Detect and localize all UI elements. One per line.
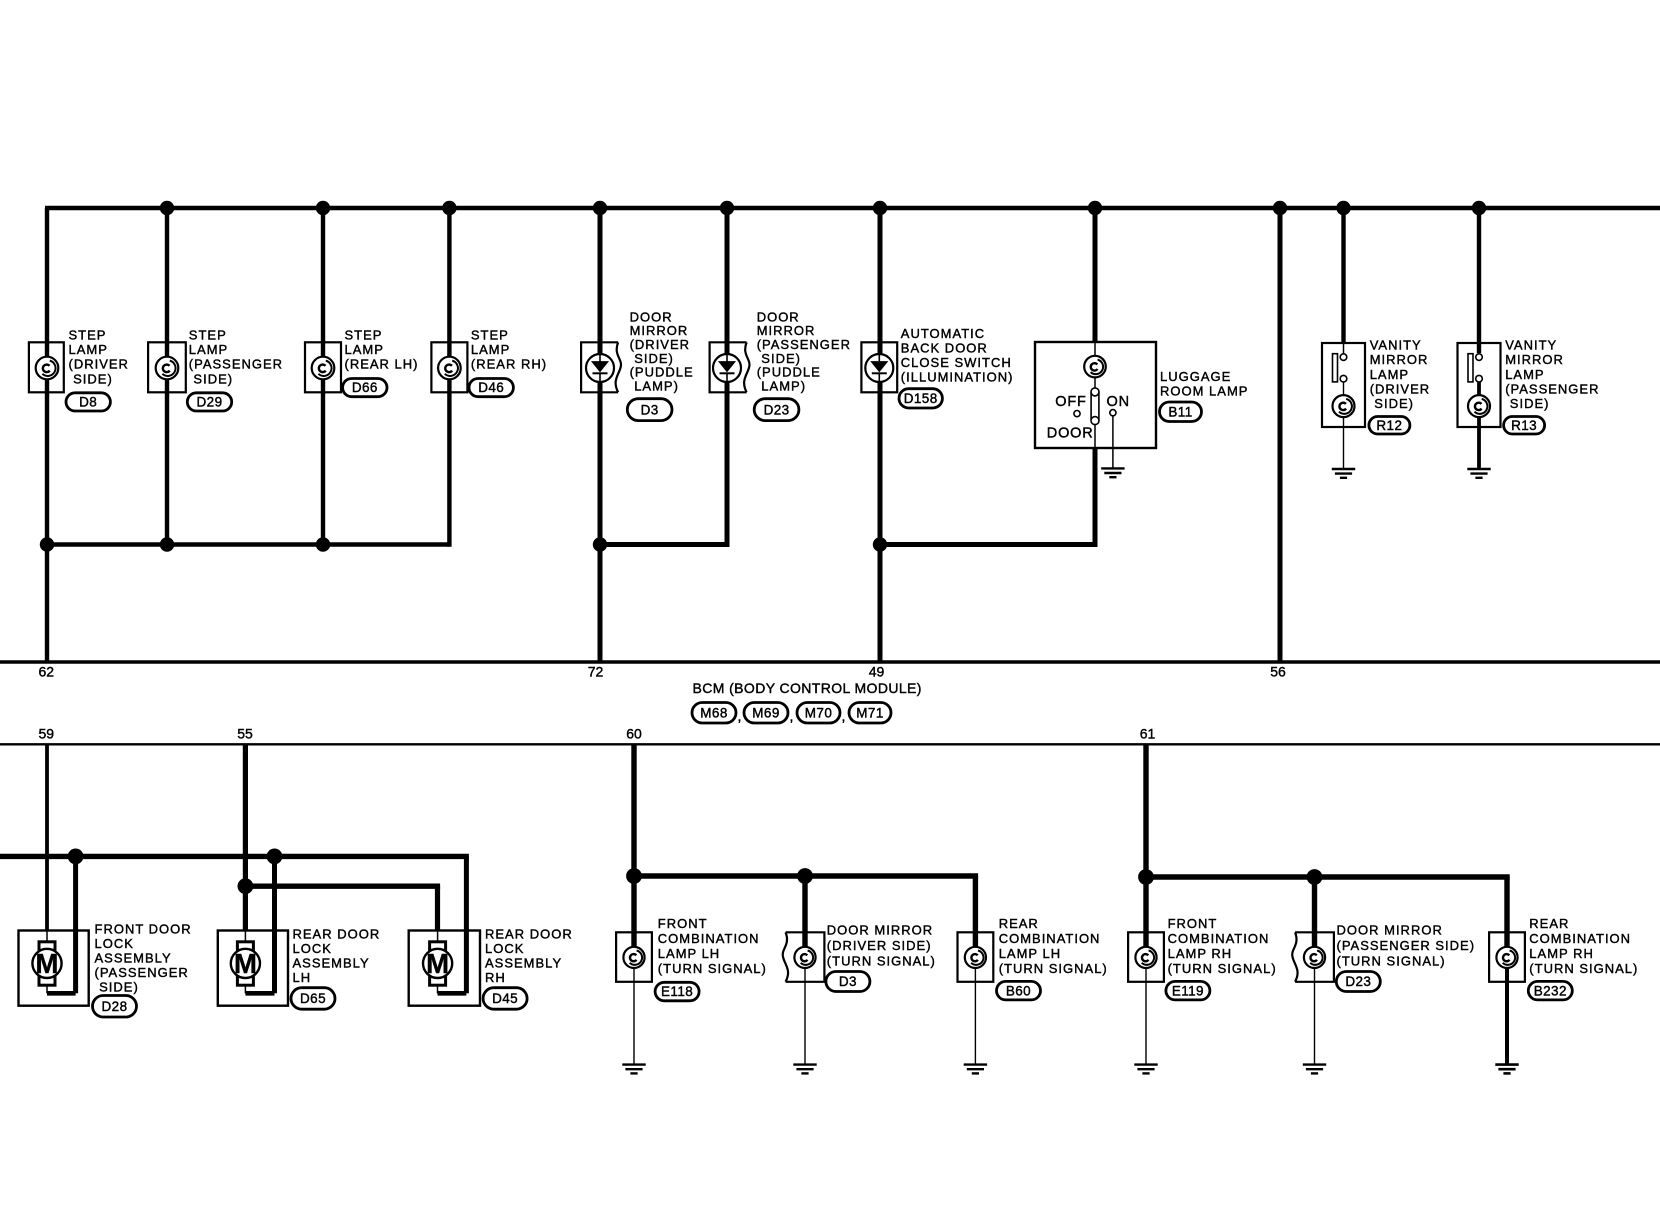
junction top bus at B11 [1088,201,1102,215]
svg-text:72: 72 [588,664,604,680]
label D3 lamp [827,923,936,969]
label D66 [345,328,419,372]
connector oval D23 [754,399,799,421]
svg-text:(PUDDLE: (PUDDLE [630,365,694,380]
svg-text:D158: D158 [904,391,938,406]
label vanity mirror driver [1370,338,1430,411]
wire lower tie bus (step lamps) [45,542,450,546]
svg-text:DOOR MIRROR: DOOR MIRROR [1337,923,1443,938]
svg-text:ASSEMBLY: ASSEMBLY [95,951,172,966]
svg-text:CLOSE SWITCH: CLOSE SWITCH [901,355,1012,370]
connector oval D66 [343,379,387,397]
wire branch to D65 lock [272,856,277,993]
door lock motor D65 [218,931,288,1006]
connector oval D158 [899,389,942,408]
svg-text:LH: LH [293,970,312,985]
svg-text:49: 49 [869,664,885,680]
svg-text:M: M [426,948,449,979]
junction tie bus at step lamp driver [40,537,54,551]
svg-text:E119: E119 [1172,983,1204,998]
wire drop to door mirror D3 turn [802,876,807,957]
wire luggage room lamp drop [1093,208,1098,342]
svg-text:MIRROR: MIRROR [630,323,689,338]
svg-text:BACK DOOR: BACK DOOR [901,341,988,356]
label D29 [189,328,283,387]
ground (vanity passenger) [1467,469,1490,478]
svg-text:SIDE): SIDE) [630,351,674,366]
svg-text:,: , [738,708,742,724]
svg-text:DOOR: DOOR [1047,425,1094,441]
svg-text:OFF: OFF [1055,394,1086,410]
svg-text:LAMP: LAMP [189,342,228,357]
svg-text:LAMP: LAMP [1370,367,1409,382]
wire vanity mirror passenger drop [1477,208,1481,342]
svg-text:(REAR LH): (REAR LH) [345,357,419,372]
turn signal lamp D23 [1292,932,1334,1064]
svg-text:DOOR MIRROR: DOOR MIRROR [827,923,933,938]
ground (B232) [1495,1065,1518,1074]
svg-text:LAMP: LAMP [345,342,384,357]
pin 61 [1140,726,1156,742]
label D45 [485,927,573,986]
svg-text:D29: D29 [197,395,223,410]
turn signal lamp E119 [1128,932,1164,1064]
step lamp bulb D29 [148,342,186,392]
svg-text:R13: R13 [1511,418,1537,433]
wire D65 loop [245,986,274,994]
svg-text:COMBINATION: COMBINATION [658,931,760,946]
ground (B60) [964,1065,987,1074]
svg-text:LUGGAGE: LUGGAGE [1160,369,1231,384]
door mirror puddle lamp D23 (LED) [710,342,750,392]
svg-text:M: M [234,948,257,979]
pin 59 [39,726,55,742]
wire tie door mirror puddle lamps [600,542,730,547]
connector oval D46 [469,379,513,397]
svg-text:(TURN SIGNAL): (TURN SIGNAL) [827,953,936,968]
svg-text:VANITY: VANITY [1370,338,1422,353]
wire BCM pin 56 riser [1278,208,1283,662]
turn signal lamp B232 [1489,932,1525,1064]
junction tie bus at step lamp rear LH [316,537,330,551]
junction feed bus at D28 [68,849,84,865]
svg-text:M68: M68 [700,705,727,720]
svg-text:(TURN SIGNAL): (TURN SIGNAL) [1529,961,1638,976]
svg-text:STEP: STEP [471,328,509,343]
svg-text:DOOR: DOOR [757,309,800,324]
svg-text:D3: D3 [641,402,659,417]
svg-text:LAMP LH: LAMP LH [999,946,1061,961]
svg-text:(PASSENGER: (PASSENGER [1505,381,1599,396]
svg-text:ON: ON [1107,394,1130,410]
svg-text:ROOM LAMP: ROOM LAMP [1160,383,1248,398]
svg-text:D8: D8 [79,395,97,410]
svg-text:61: 61 [1140,726,1156,742]
svg-text:D66: D66 [352,380,378,395]
connector oval D3 [627,399,672,421]
wire back door switch drop / BCM pin 49 riser [878,208,883,662]
svg-text:ASSEMBLY: ASSEMBLY [485,956,562,971]
wire ON contact to ground [1112,416,1114,469]
BCM module bottom edge [0,743,1660,745]
vanity mirror lamp R12 [1322,343,1365,469]
svg-text:LAMP RH: LAMP RH [1168,946,1233,961]
wire drop to rear combination B232 [1504,877,1509,957]
svg-text:SIDE): SIDE) [69,371,113,386]
svg-text:STEP: STEP [189,328,227,343]
door lock motor D28 [19,931,89,1006]
junction top bus at R13 [1472,201,1486,215]
wire step lamp driver side drop / BCM pin 62 riser [45,208,49,662]
junction tie bus at step lamp passenger [160,537,174,551]
junction top bus at D66 [316,201,330,215]
svg-text:MIRROR: MIRROR [1505,352,1564,367]
svg-text:D3: D3 [839,974,857,989]
label B232 lamp [1529,916,1638,976]
wire step lamp passenger side drop [165,208,169,545]
svg-text:LAMP: LAMP [1505,367,1544,382]
pin 49 [869,664,885,680]
wire door-lock feed bus (from left edge) [0,854,469,859]
label OFF [1055,394,1086,410]
label D8 [69,328,129,387]
svg-text:LAMP: LAMP [69,342,108,357]
svg-text:62: 62 [39,664,55,680]
svg-text:(PASSENGER: (PASSENGER [189,357,283,372]
svg-text:LAMP RH: LAMP RH [1529,946,1594,961]
connector oval B60 [997,981,1041,1000]
svg-text:DOOR: DOOR [630,309,673,324]
wire BCM pin 55 drop [243,744,248,930]
svg-text:COMBINATION: COMBINATION [1529,931,1631,946]
svg-text:(DRIVER: (DRIVER [630,337,690,352]
connector oval B232 [1528,981,1572,1000]
svg-text:LAMP): LAMP) [630,378,679,393]
svg-text:55: 55 [237,726,253,742]
vanity mirror lamp R13 [1458,343,1501,469]
svg-text:(PASSENGER: (PASSENGER [757,337,851,352]
wire D28 loop [47,986,76,994]
svg-text:M71: M71 [856,705,883,720]
svg-text:LAMP): LAMP) [757,378,806,393]
junction top bus at D23 [720,201,734,215]
svg-text:SIDE): SIDE) [757,351,801,366]
ground (E119) [1134,1065,1157,1074]
ground (luggage lamp switch) [1101,468,1124,477]
svg-text:B11: B11 [1168,404,1192,419]
wire drop to door mirror D23 turn [1312,877,1317,957]
connector oval E119 [1166,981,1210,1000]
svg-text:SIDE): SIDE) [95,980,139,995]
svg-text:(TURN SIGNAL): (TURN SIGNAL) [1337,953,1446,968]
svg-text:STEP: STEP [69,328,107,343]
connector oval R13 [1504,417,1545,435]
wire BCM pin 59 to front door lock motor [45,744,49,930]
pin 60 [626,726,642,742]
connector oval B11 [1160,402,1202,422]
svg-text:REAR: REAR [999,916,1039,931]
label D46 [471,328,547,372]
connector oval D23 [1336,972,1380,992]
wire branch to D45 lock [464,856,469,993]
step lamp bulb D46 [431,342,467,392]
svg-text:LAMP LH: LAMP LH [658,946,720,961]
svg-text:(DRIVER SIDE): (DRIVER SIDE) [827,938,932,953]
svg-text:59: 59 [39,726,55,742]
connector oval D28 [93,996,137,1018]
wire door mirror driver drop / BCM pin 72 riser [598,208,603,662]
turn signal lamp E118 [616,932,652,1064]
ground (D23) [1303,1065,1326,1074]
pin 55 [237,726,253,742]
svg-text:COMBINATION: COMBINATION [1168,931,1270,946]
svg-text:FRONT: FRONT [1168,916,1218,931]
label door mirror passenger puddle [757,309,851,393]
svg-text:R12: R12 [1376,418,1402,433]
svg-text:LAMP: LAMP [471,342,510,357]
svg-text:(DRIVER: (DRIVER [1370,381,1430,396]
svg-text:56: 56 [1270,664,1286,680]
connector oval D3 [826,972,870,992]
svg-text:(TURN SIGNAL): (TURN SIGNAL) [658,961,767,976]
svg-text:60: 60 [626,726,642,742]
svg-text:(PASSENGER: (PASSENGER [95,965,189,980]
wire branch to D28 lock [73,856,78,993]
svg-text:LOCK: LOCK [95,936,134,951]
wire drop to D45 motor [435,886,440,930]
svg-text:REAR: REAR [1529,916,1569,931]
svg-text:D45: D45 [492,991,518,1006]
label D23 lamp [1337,923,1476,969]
svg-text:REAR DOOR: REAR DOOR [293,927,381,942]
svg-text:(TURN SIGNAL): (TURN SIGNAL) [999,961,1108,976]
junction tie bus at door mirror driver [593,537,607,551]
svg-text:,: , [842,708,846,724]
svg-text:B232: B232 [1534,983,1567,998]
svg-text:M70: M70 [805,705,832,720]
svg-text:COMBINATION: COMBINATION [999,931,1101,946]
wire luggage room lamp to tie bus [1093,448,1098,545]
svg-text:FRONT DOOR: FRONT DOOR [95,922,192,937]
label door mirror driver puddle [630,309,694,393]
svg-text:REAR DOOR: REAR DOOR [485,927,573,942]
ground (E118) [622,1065,645,1074]
svg-text:(TURN SIGNAL): (TURN SIGNAL) [1168,961,1277,976]
junction pin60 at LH turn bus [626,868,642,884]
step lamp bulb D66 [305,342,341,392]
svg-text:(DRIVER: (DRIVER [69,357,129,372]
svg-text:D65: D65 [300,991,326,1006]
junction top bus at R12 [1336,201,1350,215]
ground (vanity driver) [1332,469,1355,478]
svg-text:D28: D28 [102,999,128,1014]
label DOOR [1047,425,1094,441]
svg-text:SIDE): SIDE) [1505,396,1549,411]
svg-text:VANITY: VANITY [1505,338,1557,353]
junction pin61 at RH turn bus [1138,869,1154,885]
svg-text:(PASSENGER SIDE): (PASSENGER SIDE) [1337,938,1476,953]
svg-text:LOCK: LOCK [293,941,332,956]
pin 72 [588,664,604,680]
wire step lamp rear LH drop [321,208,325,545]
door lock motor D45 [409,931,480,1006]
junction RH turn bus at D23 [1307,869,1323,885]
pin 62 [39,664,55,680]
junction tie bus at back door switch [873,537,887,551]
svg-text:D46: D46 [478,380,504,395]
label E119 lamp [1168,916,1277,976]
svg-text:STEP: STEP [345,328,383,343]
wire D45 loop [438,986,467,994]
svg-text:AUTOMATIC: AUTOMATIC [901,326,985,341]
turn signal lamp D3 [783,932,825,1064]
wire BCM pin 61 drop [1143,744,1148,957]
svg-text:SIDE): SIDE) [189,371,233,386]
label luggage room lamp [1160,369,1248,398]
wire drop to rear combination B60 [973,876,978,957]
svg-text:(REAR RH): (REAR RH) [471,357,547,372]
svg-text:(PUDDLE: (PUDDLE [757,365,821,380]
svg-text:RH: RH [485,970,506,985]
automatic back door close switch illumination D158 (LED) [861,342,897,392]
svg-text:M69: M69 [752,705,779,720]
connector oval D65 [291,988,335,1010]
svg-text:,: , [790,708,794,724]
junction top bus at D29 [160,201,174,215]
junction top bus at D158 [873,201,887,215]
wire main power bus (top) [45,206,1660,210]
wire rear lock bus [245,884,440,889]
svg-text:D23: D23 [764,402,790,417]
BCM module top edge [0,660,1660,663]
connector oval D8 [66,393,110,411]
junction top bus at D3 [593,201,607,215]
svg-text:E118: E118 [661,984,693,999]
label back door close switch [901,326,1014,385]
svg-text:ASSEMBLY: ASSEMBLY [293,956,370,971]
svg-text:B60: B60 [1006,983,1031,998]
junction LH turn bus at D3 [797,868,813,884]
pin 56 [1270,664,1286,680]
svg-text:MIRROR: MIRROR [1370,352,1429,367]
wire RH turn signal bus [1146,874,1510,879]
label D28 [95,922,192,995]
wire tie back door switch - luggage lamp [880,542,1098,547]
luggage room lamp B11 (bulb + switch) [1035,342,1156,448]
svg-text:MIRROR: MIRROR [757,323,816,338]
svg-text:FRONT: FRONT [658,916,708,931]
door mirror puddle lamp D3 (LED) [581,342,621,392]
label ON [1107,394,1130,410]
junction top bus at pin56 [1273,201,1287,215]
wire step lamp rear RH drop [447,208,451,547]
ground (D3) [793,1065,816,1074]
step lamp bulb D8 [29,342,64,392]
connector oval E118 [655,982,699,1001]
label BCM (BODY CONTROL MODULE) [693,680,922,696]
connector oval R12 [1369,417,1410,435]
svg-text:SIDE): SIDE) [1370,396,1414,411]
svg-text:LOCK: LOCK [485,941,524,956]
connector oval D29 [187,393,231,411]
svg-text:M: M [36,948,59,979]
svg-text:(ILLUMINATION): (ILLUMINATION) [901,370,1014,385]
junction pin55 wire at rear lock bus [238,878,254,894]
svg-text:BCM (BODY CONTROL MODULE): BCM (BODY CONTROL MODULE) [693,680,922,696]
BCM connector ovals M68 M69 M70 M71 [692,703,891,725]
junction top bus at D46 [442,201,456,215]
connector oval D45 [483,988,527,1010]
svg-text:D23: D23 [1345,974,1371,989]
junction feed bus at D65 [267,849,283,865]
wire vanity mirror driver drop [1341,208,1345,343]
label B60 lamp [999,916,1108,976]
label D65 [293,927,381,986]
wire BCM pin 60 drop [631,744,636,957]
label E118 lamp [658,916,767,976]
wire door mirror passenger drop [725,208,730,547]
wire LH turn signal bus [634,873,978,878]
label vanity mirror passenger [1505,338,1599,411]
turn signal lamp B60 [958,932,994,1064]
